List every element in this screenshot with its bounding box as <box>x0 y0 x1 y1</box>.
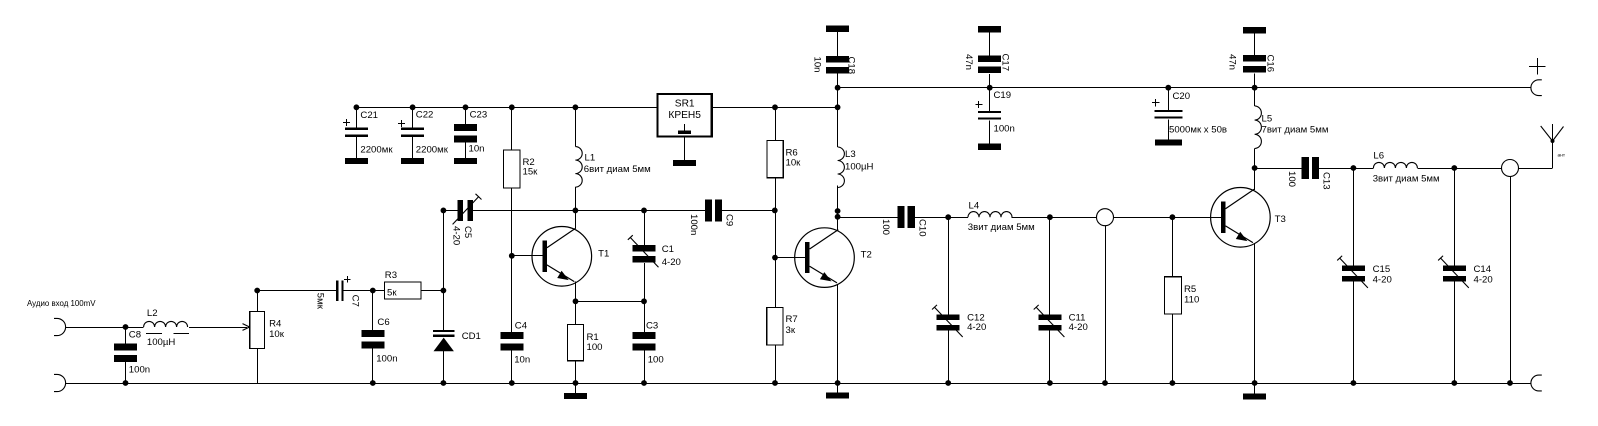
svg-text:4-20: 4-20 <box>1373 274 1392 285</box>
junction ground R7 <box>772 380 778 386</box>
wire: C6 column top <box>372 291 374 331</box>
wire: rail to C20 <box>1168 88 1170 110</box>
wire: C14 column top <box>1454 168 1456 265</box>
inductor L2 100µH with core <box>144 308 189 348</box>
svg-text:CD1: CD1 <box>462 331 481 342</box>
resistor R5 110 <box>1164 277 1199 314</box>
junction R5/T3 base node <box>1170 214 1176 220</box>
svg-text:L2: L2 <box>147 308 158 319</box>
junction C20/rail <box>1165 85 1171 91</box>
junction C22/rail <box>410 104 416 110</box>
wire: C7 to R3 with C6 tap <box>343 290 384 292</box>
capacitor C23 10n <box>454 110 487 155</box>
capacitor C19 100n electrolytic <box>975 90 1015 135</box>
svg-text:L3: L3 <box>845 149 856 160</box>
junction ground CD1 <box>441 380 447 386</box>
wire: R3 to varicap node <box>421 290 443 292</box>
svg-text:C4: C4 <box>515 320 528 331</box>
connector: audio input top <box>54 318 66 335</box>
svg-text:10к: 10к <box>269 329 285 340</box>
svg-text:100n: 100n <box>129 365 150 376</box>
wire: C11 to ground rail <box>1049 331 1051 383</box>
ground T2 emitter <box>826 383 849 398</box>
wire: C15 node to L6 <box>1353 168 1373 170</box>
svg-text:C9: C9 <box>724 214 735 226</box>
ground C22 <box>401 158 424 164</box>
junction tank node L1/T1 collector <box>573 208 579 214</box>
ground C20 <box>1155 139 1182 145</box>
wire: C3 to ground rail <box>644 351 646 384</box>
wire: C17 bar stub <box>989 32 991 55</box>
svg-text:C13: C13 <box>1321 172 1332 190</box>
junction C23/rail <box>463 104 469 110</box>
ground T3 emitter <box>1243 383 1266 399</box>
wire: rail to C23 <box>465 107 467 124</box>
wire: R6 bottom to T2 base node <box>775 178 777 308</box>
wire: L5 bottom to output node <box>1254 148 1256 168</box>
svg-text:4-20: 4-20 <box>451 226 462 245</box>
svg-text:7вит диам 5мм: 7вит диам 5мм <box>1262 125 1329 136</box>
svg-text:C14: C14 <box>1474 264 1492 275</box>
battery + terminal <box>1529 58 1545 96</box>
capacitor C16 47n <box>1227 54 1276 73</box>
wire: R3 node down to CD1 <box>443 291 445 331</box>
svg-text:C21: C21 <box>360 110 378 121</box>
junction C8/input <box>123 324 129 330</box>
wire: T1 base <box>512 255 543 257</box>
wire: R7 bottom to ground rail <box>775 345 777 383</box>
svg-text:100n: 100n <box>376 354 397 365</box>
svg-text:C6: C6 <box>377 317 389 328</box>
wire: T2 base <box>775 257 805 259</box>
junction L3 column/rail <box>835 104 841 110</box>
svg-text:R3: R3 <box>385 270 397 281</box>
resistor R7 3к <box>767 307 798 345</box>
svg-text:L6: L6 <box>1373 150 1384 161</box>
svg-text:100µH: 100µH <box>845 162 874 173</box>
resistor R3 5к <box>385 270 422 299</box>
wire: T3 emitter to ground rail <box>1254 243 1256 383</box>
capacitor C8 100n <box>114 329 150 375</box>
wire: C5 node stub <box>443 210 457 212</box>
capacitor C17 47n <box>963 54 1011 74</box>
wire: C21 to ground bar <box>356 137 358 158</box>
junction L6/C14 node <box>1451 165 1457 171</box>
capacitor C13 100 <box>1286 157 1332 190</box>
junction L1/rail <box>573 104 579 110</box>
junction L4/C11 node <box>1047 214 1053 220</box>
trimmer capacitor C5 4-20 <box>451 194 482 245</box>
potentiometer R4 10к <box>250 311 285 348</box>
connector X2 (feedthrough) <box>1502 160 1519 177</box>
ground SR1 <box>673 160 696 166</box>
wire: C17 to battery rail <box>989 74 991 88</box>
svg-text:100: 100 <box>648 355 664 366</box>
wire: R4 node to C7 <box>257 290 336 292</box>
wire: rail to L5 top <box>1254 88 1256 106</box>
wire: R4 top to wiper node <box>257 291 259 312</box>
resistor R1 100 <box>567 324 602 360</box>
svg-text:47n: 47n <box>963 54 974 70</box>
wire: CD1 to ground rail <box>443 351 445 383</box>
wire: C1 bottom to C3 node <box>644 263 646 301</box>
junction ground X2 <box>1507 380 1513 386</box>
svg-text:47n: 47n <box>1227 54 1238 70</box>
wire: C8 to ground rail <box>125 362 127 383</box>
junction T3 collector/L5 node <box>1252 165 1258 171</box>
wire: rail to C19 <box>989 88 991 111</box>
svg-text:T1: T1 <box>598 248 609 259</box>
trimmer capacitor C15 4-20 <box>1337 256 1392 288</box>
svg-text:C15: C15 <box>1373 264 1391 275</box>
connector: output bottom <box>1531 375 1542 391</box>
wire: C10 to L4 node <box>915 217 968 219</box>
wire: L3 bottom to T2 collector <box>837 186 839 232</box>
capacitor C22 2200мк electrolytic <box>398 110 449 156</box>
junction ground R1 <box>573 380 579 386</box>
capacitor C10 100 <box>880 206 928 236</box>
junction C13/C15/L6 node <box>1351 165 1357 171</box>
capacitor C9 100n <box>688 199 735 235</box>
svg-text:C16: C16 <box>1265 55 1276 73</box>
wire: T2 collector node to C10 <box>838 217 898 219</box>
svg-text:C19: C19 <box>994 90 1012 101</box>
svg-text:15к: 15к <box>523 167 539 178</box>
wire: C22 to ground bar <box>412 137 414 158</box>
junction ground C12 <box>945 380 951 386</box>
wire: T2 emitter to ground rail <box>837 284 839 383</box>
wire: C13 to C15 node <box>1319 168 1353 170</box>
ground T1 emitter <box>564 383 587 399</box>
svg-text:C18: C18 <box>846 57 857 75</box>
capacitor C4 10n <box>500 320 530 365</box>
svg-text:C3: C3 <box>646 320 658 331</box>
junction C3/emitter node <box>641 298 647 304</box>
junction ground R5 <box>1170 380 1176 386</box>
junction R6/rail <box>772 104 778 110</box>
svg-text:4-20: 4-20 <box>1069 322 1088 333</box>
wire: T1 collector <box>575 210 577 228</box>
wire: C8 column top <box>125 327 127 344</box>
wire: L6 to C14 node <box>1417 168 1501 170</box>
wire: rail to R6 top <box>775 107 777 140</box>
svg-text:C8: C8 <box>129 329 141 340</box>
svg-text:100: 100 <box>880 219 891 235</box>
svg-text:R5: R5 <box>1184 284 1196 295</box>
junction R4 top node <box>254 288 260 294</box>
junction C9/T2 base column <box>772 208 778 214</box>
inductor L5 7вит диам 5мм <box>1255 106 1329 149</box>
svg-text:C7: C7 <box>350 295 361 307</box>
wire: L1 bottom to tank node <box>575 187 577 210</box>
wire: C23 to ground bar <box>465 143 467 158</box>
svg-text:C5: C5 <box>462 226 473 238</box>
svg-text:5мк: 5мк <box>315 293 326 310</box>
svg-text:3вит диам 5мм: 3вит диам 5мм <box>1373 174 1440 185</box>
junction ground C11 <box>1047 380 1053 386</box>
wire: regulated supply rail (C21 to SR1 input) <box>356 107 657 109</box>
svg-text:SR1: SR1 <box>675 99 695 110</box>
junction ground C15 <box>1351 380 1357 386</box>
svg-text:T3: T3 <box>1275 214 1286 225</box>
wire: C16 bar stub <box>1254 34 1256 55</box>
svg-text:100µH: 100µH <box>147 337 176 348</box>
svg-text:КРЕН5: КРЕН5 <box>668 110 701 121</box>
ground C17 (top) <box>978 26 1001 32</box>
wire: R1 bottom to ground rail <box>575 361 577 383</box>
trimmer capacitor C14 4-20 <box>1438 256 1493 288</box>
svg-text:C1: C1 <box>662 244 674 255</box>
svg-text:R4: R4 <box>269 319 282 330</box>
junction ground C8 <box>123 380 129 386</box>
junction L3/T2 collector node a <box>835 208 841 214</box>
svg-text:10n: 10n <box>812 57 823 73</box>
wire: audio input to C8 node <box>66 327 144 329</box>
svg-text:2200мк: 2200мк <box>360 145 393 156</box>
junction R2/rail <box>509 104 515 110</box>
junction C16-L5/rail <box>1252 85 1258 91</box>
svg-text:3вит диам 5мм: 3вит диам 5мм <box>968 222 1035 233</box>
wire: connector to T3 base <box>1114 217 1222 219</box>
junction ground C6 <box>370 380 376 386</box>
svg-text:C10: C10 <box>917 219 928 237</box>
svg-text:C22: C22 <box>416 110 434 121</box>
capacitor C18 10n <box>812 56 857 74</box>
svg-text:3к: 3к <box>786 325 796 336</box>
wire: T1 base node down to C4 <box>511 256 513 332</box>
ground C16 (top) <box>1243 27 1266 33</box>
svg-text:T2: T2 <box>861 250 872 261</box>
svg-text:L1: L1 <box>585 152 596 163</box>
ground C21 <box>345 158 368 164</box>
wire: output node to C13 <box>1255 168 1302 170</box>
resistor R2 15к <box>504 150 539 188</box>
antenna <box>1541 124 1566 159</box>
junction C17-C19/rail <box>987 85 993 91</box>
svg-text:4-20: 4-20 <box>967 322 986 333</box>
wire: C5 to C9 (osc tank wire) <box>473 210 705 212</box>
wire: C4 to ground rail <box>511 351 513 384</box>
wire: connector X2 stem <box>1510 177 1512 384</box>
capacitor C7 5мк electrolytic <box>315 276 361 310</box>
svg-text:L4: L4 <box>969 201 980 212</box>
varicap diode CD1 <box>433 330 481 351</box>
junction ground X1 <box>1102 380 1108 386</box>
resistor R6 10к <box>767 140 801 177</box>
connector: audio input bottom <box>54 374 66 391</box>
junction battery rail/C18 column <box>835 85 841 91</box>
wire: connector X1 stem <box>1105 226 1107 383</box>
svg-text:R7: R7 <box>786 314 798 325</box>
wire: T1 emitter to C3 node <box>576 301 645 303</box>
wire: rail to L1 top <box>575 107 577 146</box>
wire: battery + rail <box>838 87 1531 89</box>
junction L4/C12 node <box>945 214 951 220</box>
wire: R4 bottom to ground rail <box>257 349 259 383</box>
wire: T1 emitter down through R1 node <box>575 282 577 325</box>
wire: C20 to ground bar <box>1168 119 1170 139</box>
svg-text:2200мк: 2200мк <box>416 145 449 156</box>
wire: C11 column top <box>1049 217 1051 314</box>
connector X1 (feedthrough) <box>1097 209 1114 226</box>
junction ground T2 <box>835 380 841 386</box>
wire: C18 to L3 top column <box>837 73 839 147</box>
wire: C15 to ground rail <box>1353 282 1355 383</box>
svg-text:100: 100 <box>587 342 603 353</box>
audio input label <box>27 299 96 308</box>
wire: C5 node down to R3 node <box>443 210 445 290</box>
junction C21/rail <box>354 104 360 110</box>
wire: rail to R2 top <box>511 107 513 150</box>
wire: SR1 ground pin <box>684 136 686 159</box>
ground C18 (top) <box>826 26 849 32</box>
svg-text:C23: C23 <box>470 110 488 121</box>
wire: rail to C21 <box>356 107 358 127</box>
svg-text:6вит диам 5мм: 6вит диам 5мм <box>584 164 651 175</box>
svg-text:Аудио вход 100mV: Аудио вход 100mV <box>27 299 96 308</box>
junction C1/tank node <box>641 208 647 214</box>
junction C5/varicap node <box>441 208 447 214</box>
junction C6 node <box>370 288 376 294</box>
inductor L3 100µH <box>838 147 874 188</box>
wire: L4 to C11 node <box>1011 217 1096 219</box>
wire: C19 to ground bar <box>989 120 991 143</box>
transistor T2 <box>795 228 872 288</box>
wire: tank node down to C1 <box>644 210 646 244</box>
wire: C18 bar stub <box>837 32 839 56</box>
svg-text:10n: 10n <box>514 355 530 366</box>
wire: rail to C22 <box>412 107 414 127</box>
svg-text:10n: 10n <box>469 144 485 155</box>
voltage regulator SR1 КРЕН5 <box>658 94 712 136</box>
capacitor C20 5000мк х 50в electrolytic <box>1152 91 1227 136</box>
wire: C6 column bottom <box>372 349 374 384</box>
wire: C9 to T2 base column <box>722 210 775 212</box>
wire: connector X2 to antenna stem <box>1519 168 1553 170</box>
svg-text:100n: 100n <box>688 214 699 235</box>
wire: C16 to battery rail <box>1254 74 1256 88</box>
wire: C12 column top <box>948 217 950 314</box>
svg-text:10к: 10к <box>786 157 802 168</box>
trimmer capacitor C1 4-20 <box>628 235 681 268</box>
transistor T1 <box>532 226 609 286</box>
wire: T3 collector <box>1254 168 1256 190</box>
svg-text:100n: 100n <box>994 124 1015 135</box>
junction R3/varicap node <box>441 288 447 294</box>
svg-text:110: 110 <box>1184 295 1199 306</box>
ground C19 <box>978 144 1001 150</box>
junction ground C3 <box>641 380 647 386</box>
inductor L6 3вит диам 5мм <box>1373 150 1440 184</box>
wire: C12 to ground rail <box>948 331 950 383</box>
wire: C14 to ground rail <box>1454 282 1456 383</box>
capacitor C3 100 <box>633 320 664 365</box>
wire: ground rail (bottom) <box>66 383 1531 385</box>
wire: R2 bottom to T1 base node <box>511 188 513 256</box>
transistor T3 <box>1211 188 1286 248</box>
svg-text:5к: 5к <box>387 287 397 298</box>
svg-text:ант: ант <box>1558 154 1566 159</box>
junction ground C4 <box>509 380 515 386</box>
inductor L4 3вит диам 5мм <box>968 201 1035 233</box>
ground C23 <box>454 158 477 164</box>
svg-text:C17: C17 <box>1000 54 1011 72</box>
wire: L2 to R4 wiper with arrow <box>189 324 250 331</box>
junction ground T3 <box>1252 380 1258 386</box>
wire: supply rail SR1 output to L3 column <box>712 107 838 109</box>
capacitor C21 2200мк electrolytic <box>343 110 394 156</box>
svg-text:5000мк х 50в: 5000мк х 50в <box>1169 125 1227 136</box>
junction T2 base node <box>772 255 778 261</box>
junction T1 base node <box>509 253 515 259</box>
wire: C15 column top <box>1353 168 1355 265</box>
svg-text:L5: L5 <box>1262 113 1273 124</box>
wire: antenna stem <box>1552 141 1554 168</box>
trimmer capacitor C11 4-20 <box>1034 305 1088 337</box>
junction ground C14 <box>1451 380 1457 386</box>
wire: R5 bottom to ground rail <box>1172 314 1174 383</box>
svg-text:C20: C20 <box>1173 91 1191 102</box>
svg-text:4-20: 4-20 <box>662 257 681 268</box>
inductor L1 6вит диам 5мм <box>575 147 650 188</box>
capacitor C6 100n <box>361 317 397 364</box>
wire: C3 node down to C3 <box>644 301 646 332</box>
svg-text:100: 100 <box>1286 171 1297 187</box>
wire: R5 top column <box>1172 217 1174 277</box>
trimmer capacitor C12 4-20 <box>932 305 986 337</box>
svg-text:4-20: 4-20 <box>1474 274 1493 285</box>
junction T1 emitter node <box>573 298 579 304</box>
junction L3/T2 collector node b <box>835 214 841 220</box>
